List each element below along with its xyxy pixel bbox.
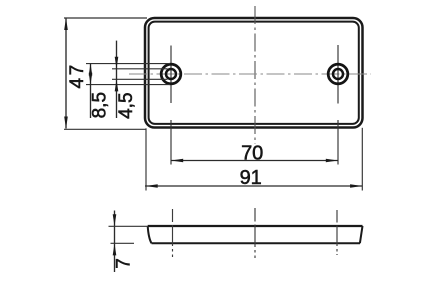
side view middle centerline: [254, 208, 256, 258]
dimension 7 line: [113, 211, 117, 273]
side view left hole centerline: [172, 209, 174, 257]
dimension 47 top extension line: [64, 17, 147, 19]
extension line dia8.5 top: [86, 63, 170, 65]
svg-text:47: 47: [67, 62, 88, 88]
extension line dia4.5 top: [112, 68, 168, 70]
svg-text:91: 91: [240, 167, 262, 189]
extension line below plate right edge: [361, 128, 363, 191]
extension line below right hole: [337, 120, 339, 165]
right hole vertical centerline: [337, 45, 339, 104]
vertical centerline (plate middle): [254, 6, 256, 144]
plate outer outline: [145, 18, 363, 128]
dimension 47 line: [64, 18, 68, 129]
extension line dia4.5 bottom: [112, 78, 168, 80]
plate inner outline: [149, 22, 359, 124]
dimension 70 line: [171, 159, 338, 163]
extension line dia8.5 bottom: [86, 84, 170, 86]
horizontal centerline (through holes): [129, 73, 371, 75]
svg-text:8,5: 8,5: [90, 92, 111, 118]
side view right hole centerline: [336, 210, 338, 255]
svg-text:4,5: 4,5: [116, 92, 137, 118]
right hole inner circle: [333, 69, 343, 79]
svg-text:70: 70: [241, 143, 263, 165]
side view left end: [148, 226, 152, 243]
dimension 7 bottom extension line: [111, 242, 135, 244]
left hole vertical centerline: [170, 46, 172, 104]
dimension 91 line: [145, 184, 363, 188]
extension line below left hole: [170, 120, 172, 165]
right hole outer circle: [328, 64, 348, 84]
svg-text:7: 7: [114, 258, 135, 269]
left hole inner circle: [166, 69, 176, 79]
dimension 47 bottom extension line: [64, 128, 147, 130]
dimension 8,5 line: [89, 63, 93, 118]
dimension 4,5 line: [115, 41, 119, 118]
extension line below plate left edge: [145, 128, 147, 190]
side view right end: [360, 226, 363, 243]
left hole outer circle: [161, 64, 181, 84]
dimension 7 top extension line: [109, 225, 149, 227]
side view bottom edge: [152, 242, 361, 244]
side view top edge: [148, 225, 363, 227]
